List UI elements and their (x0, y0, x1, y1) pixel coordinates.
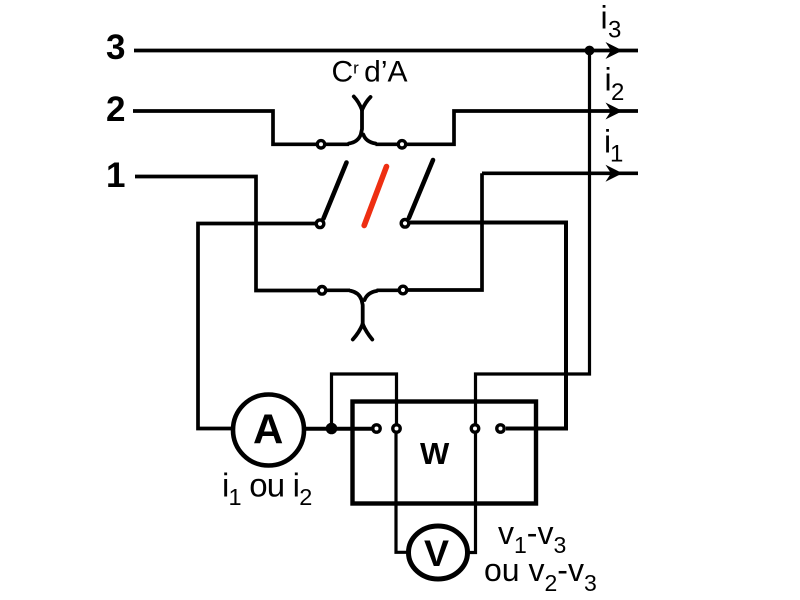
svg-text:2: 2 (106, 90, 125, 129)
svg-text:W: W (420, 436, 450, 471)
svg-text:Cr d’A: Cr d’A (332, 56, 408, 89)
svg-text:A: A (253, 406, 283, 453)
svg-text:1: 1 (610, 141, 623, 168)
svg-text:i: i (601, 0, 608, 36)
svg-text:3: 3 (608, 17, 621, 44)
svg-text:1: 1 (106, 156, 125, 195)
svg-text:2: 2 (611, 79, 624, 106)
svg-text:V: V (424, 532, 449, 574)
svg-text:3: 3 (106, 28, 125, 67)
